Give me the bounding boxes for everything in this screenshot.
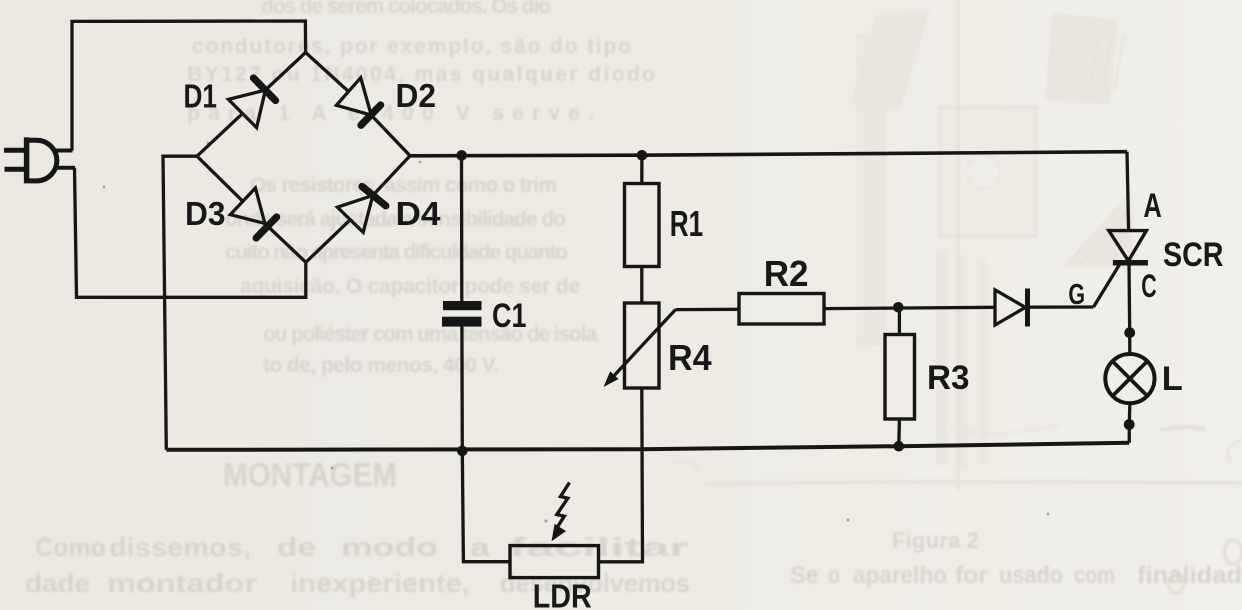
svg-text:R4: R4 — [668, 337, 712, 378]
gate diode — [995, 289, 1028, 327]
AC plug P1 body — [27, 137, 57, 183]
svg-text:de: de — [277, 532, 316, 562]
resistor R2 — [739, 294, 824, 325]
svg-text:dissemos,: dissemos, — [109, 532, 251, 562]
svg-text:Os resistores, assim como o tr: Os resistores, assim como o trim — [250, 174, 557, 197]
svg-text:A: A — [1143, 187, 1161, 225]
wire bottom-left loop to bridge bottom — [75, 168, 306, 297]
svg-text:D3: D3 — [185, 195, 226, 232]
svg-text:D2: D2 — [396, 77, 437, 114]
svg-text:R3: R3 — [927, 359, 970, 397]
lamp L — [1105, 354, 1154, 403]
svg-text:C1: C1 — [492, 297, 527, 335]
paper speckles (decorative) — [103, 142, 1050, 523]
bridge edge bottom-right — [306, 156, 410, 263]
svg-text:dos de serem colocados. Os dio: dos de serem colocados. Os dio — [261, 0, 551, 18]
LDR resistor box — [510, 546, 599, 578]
wire SCR anode riser — [1127, 152, 1129, 231]
junction node bus/C1 top — [456, 150, 467, 161]
diode D4 — [337, 187, 385, 233]
svg-text:ou poliéster com uma tensão de: ou poliéster com uma tensão de isola — [263, 323, 597, 346]
wire top-left loop to bridge top — [72, 21, 306, 151]
svg-text:inexperiente,: inexperiente, — [290, 568, 470, 598]
bridge edge top-left — [197, 53, 306, 157]
plug prong bottom — [5, 167, 25, 172]
svg-text:condutores, por exemplo, são d: condutores, por exemplo, são do tipo — [192, 35, 631, 58]
svg-text:Como: Como — [35, 532, 106, 562]
svg-text:dade: dade — [25, 568, 90, 598]
junction node R3 bottom bus — [894, 441, 905, 452]
svg-text:com: com — [1074, 562, 1115, 589]
wire G diagonal to SCR gate — [1094, 263, 1121, 307]
svg-text:o: o — [828, 562, 840, 589]
wire gate diode to G — [1028, 305, 1094, 309]
svg-text:Figura 2: Figura 2 — [892, 528, 979, 553]
SCR — [1109, 231, 1148, 263]
svg-text:C: C — [1141, 268, 1156, 304]
wire plug top lead — [55, 149, 73, 153]
svg-text:desenvolvemos: desenvolvemos — [500, 568, 690, 598]
resistor R1 — [625, 184, 660, 267]
svg-text:cuito não apresenta dificuldad: cuito não apresenta dificuldade quanto — [225, 241, 568, 264]
wire R3 top lead — [898, 307, 901, 334]
diode D3 — [230, 188, 276, 238]
wire lamp to bottom bus — [1128, 425, 1131, 443]
junction node C1 bottom bus — [457, 446, 468, 457]
capacitor C1 — [442, 301, 482, 327]
wire node to lamp top — [1128, 333, 1131, 355]
wire top bus — [410, 152, 1127, 156]
svg-text:a: a — [470, 532, 491, 562]
wire R2 to gate diode — [824, 307, 996, 308]
svg-text:finalidad: finalidad — [1137, 562, 1242, 589]
svg-text:R2: R2 — [764, 253, 809, 294]
bridge edge top-right — [306, 53, 410, 156]
wire R3 bottom lead — [897, 419, 901, 446]
svg-text:montador: montador — [107, 568, 257, 598]
svg-text:aparelho: aparelho — [853, 562, 947, 589]
resistor R3 — [885, 335, 915, 420]
svg-text:D1: D1 — [184, 78, 218, 115]
svg-text:aquisição. O capacitor pode se: aquisição. O capacitor pode ser de — [240, 275, 580, 298]
diode D1 — [228, 78, 275, 128]
plug prong top — [4, 148, 24, 153]
diode D2 — [336, 78, 380, 126]
wire LDR left leg — [462, 451, 510, 562]
lightning arrow onto LDR — [552, 483, 570, 542]
svg-text:usado: usado — [999, 562, 1063, 589]
junction node bus/R1 top — [637, 150, 648, 161]
svg-text:for: for — [955, 562, 988, 589]
svg-text:G: G — [1068, 279, 1085, 311]
wire SCR cathode — [1127, 263, 1131, 333]
wire bridge left corner to bottom bus — [163, 156, 197, 450]
wire R1 to R4 — [640, 267, 643, 304]
svg-text:SCR: SCR — [1163, 236, 1224, 274]
svg-text:LDR: LDR — [533, 578, 592, 610]
svg-text:R1: R1 — [670, 203, 703, 244]
wire plug bottom lead — [54, 166, 75, 170]
wire R4 wiper to R2 — [676, 308, 740, 312]
wire R1 top lead — [640, 155, 643, 183]
svg-text:Se: Se — [790, 562, 819, 589]
background bleed-through ghost artwork (decorative) — [672, 0, 1242, 593]
wire LDR right leg — [599, 388, 643, 562]
bridge edge bottom-left — [197, 156, 306, 262]
wire bottom bus — [166, 443, 1129, 450]
wire lamp bottom to node — [1128, 403, 1132, 425]
svg-text:modo: modo — [341, 532, 438, 562]
potentiometer R4 — [604, 303, 676, 388]
svg-text:L: L — [1162, 360, 1183, 398]
svg-text:para 1 A e 400 V serve.: para 1 A e 400 V serve. — [187, 102, 594, 125]
junction node R2/R3/gate — [893, 302, 904, 313]
wire C1 branch top — [460, 156, 464, 302]
svg-text:D4: D4 — [396, 195, 442, 232]
svg-text:MONTAGEM: MONTAGEM — [223, 456, 397, 493]
junction node lamp bottom — [1124, 419, 1135, 430]
junction node SCR cathode — [1124, 327, 1135, 338]
wire C1 branch bottom — [460, 327, 464, 451]
